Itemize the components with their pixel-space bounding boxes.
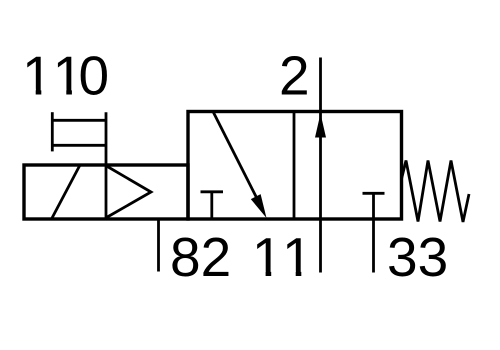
blocked port T / port 3 line in right square	[363, 193, 385, 272]
ladder bottom rail	[52, 144, 106, 147]
svg-text:0: 0	[79, 44, 110, 106]
main valve body box	[188, 112, 402, 220]
return spring	[402, 161, 470, 223]
svg-text:1: 1	[22, 44, 53, 106]
solenoid slash	[52, 165, 81, 219]
svg-text:82: 82	[170, 226, 231, 288]
pilot supply ladder symbol: left tick	[51, 112, 54, 151]
ladder top rail	[52, 119, 106, 122]
label 110	[22, 44, 109, 106]
svg-text:33: 33	[387, 226, 448, 288]
solenoid pilot box	[24, 165, 188, 219]
pilot triangle	[107, 166, 152, 218]
pilot exhaust port 82 line	[157, 219, 160, 272]
divider between valve positions	[293, 112, 296, 220]
svg-text:1: 1	[282, 226, 313, 288]
wire port 2/1 vertical line	[319, 58, 322, 273]
blocked port T in left square	[201, 192, 224, 219]
svg-text:1: 1	[252, 226, 283, 288]
diagonal flow arrow in left square	[214, 113, 267, 219]
flow arrow up (port 1 to 2) in right square	[315, 114, 326, 138]
label 11	[252, 226, 313, 288]
svg-text:2: 2	[279, 44, 310, 106]
pilot divider line	[105, 112, 108, 219]
